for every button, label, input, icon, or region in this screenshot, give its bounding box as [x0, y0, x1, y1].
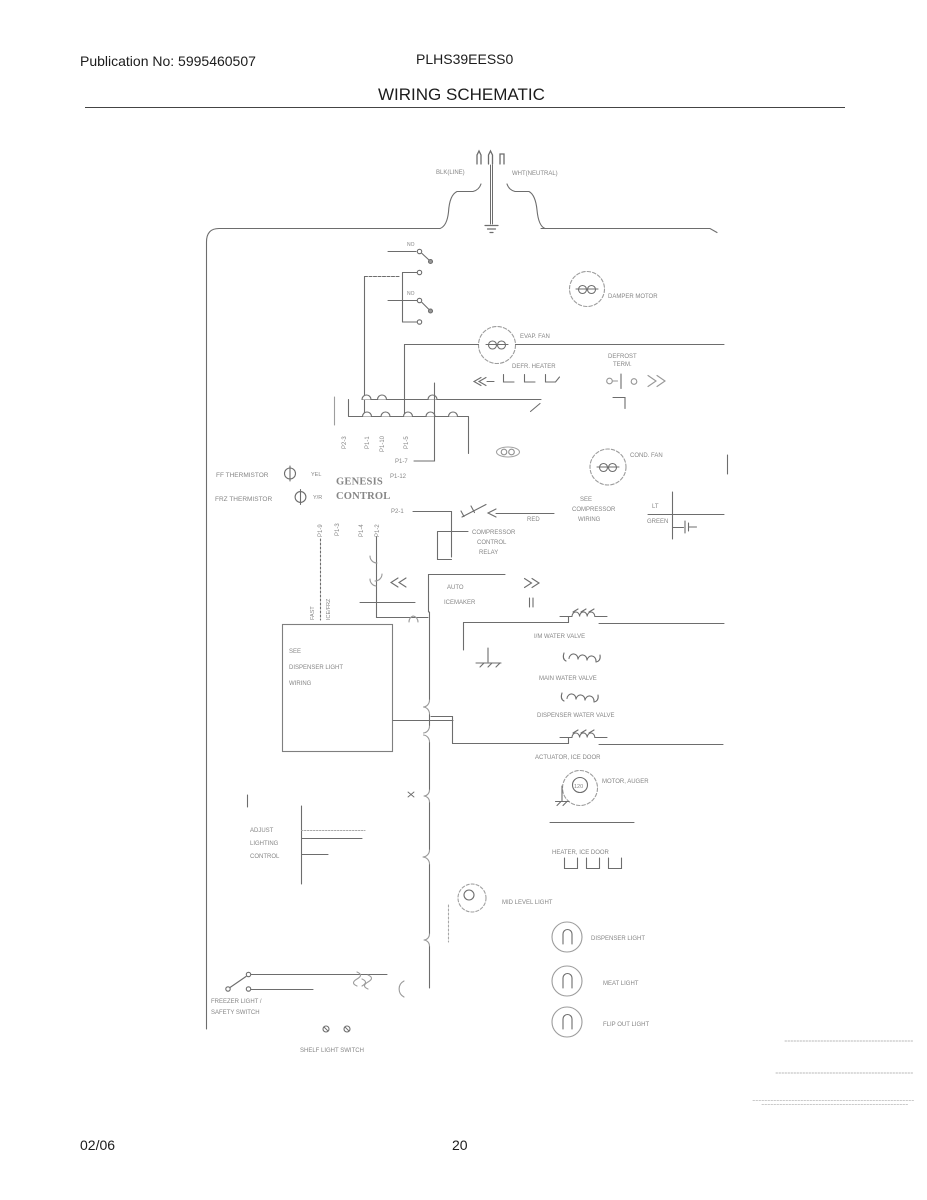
wire: connector row 1: [362, 400, 541, 412]
svg-text:COMPRESSOR: COMPRESSOR: [472, 530, 516, 536]
mid level light: dashed lamp circle: [458, 884, 486, 912]
switch S1 pivot contact: [417, 249, 421, 253]
connector arrows after defrost thermostat: [648, 376, 665, 387]
junction squiggle on distribution wire: [408, 792, 414, 797]
shelf light switch terminal 1: [323, 1026, 329, 1032]
svg-text:Y/R: Y/R: [313, 495, 322, 501]
dashed stub near mid level light: [448, 905, 450, 942]
switch S1 thrown contact: [429, 260, 433, 264]
svg-text:P1-7: P1-7: [395, 459, 408, 465]
svg-text:AUTO: AUTO: [447, 585, 464, 591]
svg-text:120: 120: [574, 784, 583, 790]
condenser fan motor: circle: [590, 449, 626, 485]
wire: P1-7 drop from defrost heater row: [414, 383, 435, 461]
svg-text:MID LEVEL LIGHT: MID LEVEL LIGHT: [502, 900, 553, 906]
capacitor: run capacitor: [673, 521, 697, 533]
wire: auto icemaker box left: [428, 575, 430, 613]
evap fan motor: windings: [486, 344, 508, 346]
svg-text:MAIN WATER VALVE: MAIN WATER VALVE: [539, 676, 597, 682]
connector humps row 2: [363, 412, 458, 417]
connector break arc near freezer switch: [399, 981, 404, 997]
svg-text:WIRING: WIRING: [578, 517, 601, 523]
wire: left bus elbow into switch bracket: [365, 276, 401, 278]
svg-text:P1-3: P1-3: [335, 523, 341, 536]
wire: box to distribution wire: [393, 720, 453, 722]
svg-text:DISPENSER LIGHT: DISPENSER LIGHT: [289, 665, 343, 671]
svg-text:P1-1: P1-1: [365, 436, 371, 449]
svg-text:YEL: YEL: [311, 472, 321, 478]
svg-text:P1-9: P1-9: [318, 524, 324, 537]
switch S2 mid contact: [417, 298, 421, 302]
dispenser light: filament: [563, 930, 572, 945]
switch S2 bracket vertical: [402, 273, 404, 323]
defrost thermostat: left terminal circle: [607, 378, 613, 384]
damper motor: circle: [570, 272, 605, 307]
svg-text:RELAY: RELAY: [479, 550, 498, 556]
switch S2 mid feed wire: [388, 300, 417, 302]
wire: crossbar tick on genesis vertical: [360, 602, 415, 604]
freezer safety switch: upper contact: [246, 972, 250, 976]
connector break arc on horizontal at x 413: [409, 616, 418, 622]
svg-text:TERM.: TERM.: [613, 362, 632, 368]
label GENESIS CONTROL: [336, 477, 391, 503]
motor auger: circle: [563, 771, 598, 806]
svg-text:FAST: FAST: [310, 606, 316, 620]
connector arrows before defrost heater: [474, 378, 494, 386]
svg-text:SAFETY SWITCH: SAFETY SWITCH: [211, 1010, 260, 1016]
connector break arcs on distribution wire: [423, 700, 430, 946]
svg-text:FRZ THERMISTOR: FRZ THERMISTOR: [215, 496, 272, 503]
power plug prong 2: [489, 151, 493, 164]
svg-text:P1-2: P1-2: [375, 524, 381, 537]
evap fan motor: circle: [479, 327, 516, 364]
FF thermistor symbol: [285, 468, 296, 479]
ground: auger motor ground: [556, 786, 570, 806]
wire: lighting control branch upper (dotted): [302, 830, 366, 832]
wire: connector row 2: [349, 400, 469, 454]
flip out light: filament: [563, 1015, 572, 1030]
svg-text:DISPENSER WATER VALVE: DISPENSER WATER VALVE: [537, 713, 614, 719]
svg-text:FF THERMISTOR: FF THERMISTOR: [216, 472, 269, 479]
svg-text:MOTOR, AUGER: MOTOR, AUGER: [602, 779, 649, 785]
svg-text:LT: LT: [652, 504, 659, 510]
ground: power cord earth ground symbol: [485, 226, 498, 233]
interconnect squiggles on freezer light line: [354, 972, 372, 989]
wire: green cap horizontal: [648, 514, 724, 516]
svg-text:NO: NO: [407, 242, 415, 248]
svg-text:SEE: SEE: [289, 649, 301, 655]
wire: actuator to right: [599, 744, 723, 746]
svg-text:MEAT LIGHT: MEAT LIGHT: [603, 981, 639, 987]
power plug prong 3: [500, 154, 504, 164]
svg-text:COND. FAN: COND. FAN: [630, 453, 663, 459]
connector break arcs on icemaker vertical: [370, 556, 382, 586]
svg-text:COMPRESSOR: COMPRESSOR: [572, 507, 616, 513]
meat light: lamp circle: [552, 966, 582, 996]
switch S2 bottom stub: [403, 321, 418, 323]
relay coil bracket left: [438, 532, 469, 560]
compressor relay contact arm: [461, 505, 486, 518]
power plug prong 1: [477, 151, 481, 164]
wire: schematic border top-left with rounded corner and left side: [207, 229, 441, 1030]
connector arrows out of icemaker: [525, 579, 540, 588]
damper motor: windings: [576, 288, 598, 290]
wire: actuator feed line: [453, 738, 569, 744]
svg-text:FREEZER LIGHT /: FREEZER LIGHT /: [211, 999, 262, 1005]
switch S2 thrown contact: [429, 309, 433, 313]
svg-text:CONTROL: CONTROL: [477, 540, 507, 546]
svg-text:EVAP. FAN: EVAP. FAN: [520, 334, 550, 340]
motor auger: inner winding circle: [573, 778, 588, 793]
svg-text:ACTUATOR, ICE DOOR: ACTUATOR, ICE DOOR: [535, 755, 601, 761]
wire: schematic border top-right segment with end hook: [541, 229, 717, 233]
wire: green cap vertical: [672, 492, 674, 539]
wire: vertical drop from evap fan node: [404, 345, 406, 417]
dispenser light: lamp circle: [552, 922, 582, 952]
dashed note line 1 (bottom right): [785, 1040, 914, 1042]
svg-text:DEFR. HEATER: DEFR. HEATER: [512, 364, 556, 370]
dashed note line 3 (bottom right): [753, 1101, 915, 1105]
flip out light: lamp circle: [552, 1007, 582, 1037]
wire: drop to chassis ground: [463, 623, 465, 651]
svg-text:FLIP OUT LIGHT: FLIP OUT LIGHT: [603, 1022, 649, 1028]
switch S1 freezer fan: feed wire: [388, 251, 416, 253]
compressor overload: small double circle: [497, 447, 520, 457]
svg-text:P1-12: P1-12: [390, 474, 407, 480]
switch S2 bottom contact: [417, 320, 421, 324]
wire: icemaker valve feed line: [464, 617, 569, 623]
svg-text:P1-5: P1-5: [404, 436, 410, 449]
wire: auto icemaker box top: [429, 574, 506, 576]
wire: genesis control to icemaker vertical: [377, 537, 429, 618]
dispenser light wiring box: [283, 625, 393, 752]
svg-text:NO: NO: [407, 291, 415, 297]
dashed note line 2 (bottom right): [776, 1072, 913, 1074]
svg-text:ICEMAKER: ICEMAKER: [444, 600, 476, 606]
dispenser water valve coil: [561, 693, 598, 702]
defrost thermostat: stem: [613, 380, 618, 382]
FRZ thermistor symbol: [295, 492, 306, 503]
connector arrows into icemaker: [391, 578, 406, 587]
dashed fast-ice vertical: [320, 539, 322, 620]
switch S2 arm: [422, 303, 429, 310]
wire: defrost elbow: [613, 398, 625, 409]
svg-text:DISPENSER LIGHT: DISPENSER LIGHT: [591, 936, 645, 942]
svg-text:HEATER, ICE DOOR: HEATER, ICE DOOR: [552, 850, 610, 856]
wire: short vertical left of connector rows: [334, 397, 336, 425]
svg-text:WIRING: WIRING: [289, 681, 312, 687]
switch S1 arm: [422, 254, 429, 261]
wire: power entry bump right plateau and S-curve: [507, 184, 545, 229]
wire: adjust lighting control stub: [247, 795, 249, 807]
svg-text:P2-3: P2-3: [342, 436, 348, 449]
meat light: filament: [563, 974, 572, 989]
svg-text:I/M WATER VALVE: I/M WATER VALVE: [534, 634, 585, 640]
ground: chassis ground under valve feed: [476, 648, 501, 667]
svg-text:LIGHTING: LIGHTING: [250, 841, 279, 847]
svg-text:GREEN: GREEN: [647, 519, 668, 525]
wire: power entry bump left S-curve and plateau: [440, 184, 481, 229]
switch S2 top stub: [403, 272, 418, 274]
condenser fan motor: windings: [597, 466, 619, 468]
wire: long vertical distribution wire: [429, 612, 431, 988]
icemaker connector bars: [530, 598, 534, 607]
wire: evap fan to right border: [516, 344, 725, 346]
svg-text:RED: RED: [527, 517, 540, 523]
defrost heater elements: [504, 375, 560, 383]
defrost thermostat: right terminal circle: [631, 379, 637, 385]
wire: P2-1 to compressor relay coil: [413, 512, 452, 558]
wire: freezer switch upper line: [251, 974, 387, 976]
wire: actuator feed elbow: [431, 717, 453, 744]
svg-text:CONTROL: CONTROL: [250, 854, 280, 860]
svg-text:DEFROST: DEFROST: [608, 354, 637, 360]
wire: into evap fan from left: [405, 344, 479, 346]
wire: left vertical bus: [364, 277, 366, 417]
wire: lighting control branch middle: [302, 838, 363, 840]
shelf light switch terminal 2: [344, 1026, 350, 1032]
wire: schematic border right-side short segment: [727, 455, 729, 474]
svg-text:SHELF LIGHT SWITCH: SHELF LIGHT SWITCH: [300, 1048, 364, 1054]
svg-text:GENESIS: GENESIS: [336, 477, 383, 488]
actuator ice door coil: [560, 730, 607, 738]
wire: compressor feed line RED: [496, 513, 554, 515]
wire: freezer switch lower line: [251, 989, 313, 991]
connector arrow on compressor line: [488, 509, 496, 517]
svg-text:WHT(NEUTRAL): WHT(NEUTRAL): [512, 171, 558, 177]
wire: lighting control branch lower: [302, 854, 329, 856]
freezer safety switch: arm: [230, 977, 246, 988]
svg-text:P1-10: P1-10: [380, 435, 386, 452]
svg-text:CONTROL: CONTROL: [336, 491, 391, 502]
connector humps row 1: [362, 395, 437, 400]
svg-text:ICE/FRZ: ICE/FRZ: [326, 598, 332, 620]
I/M water valve coil: [560, 609, 607, 617]
svg-text:P2-1: P2-1: [391, 509, 404, 515]
wire: I/M valve to right: [599, 623, 724, 625]
main water valve coil: [563, 653, 600, 662]
freezer safety switch: lower contact: [246, 987, 250, 991]
mid level light: inner blob: [464, 890, 474, 900]
wire: heater ice door feed: [550, 822, 634, 824]
svg-text:BLK(LINE): BLK(LINE): [436, 170, 465, 176]
wire: lighting control vertical: [301, 806, 303, 884]
svg-text:ADJUST: ADJUST: [250, 828, 274, 834]
defrost thermostat: bimetal bar: [620, 374, 622, 389]
freezer safety switch: common contact: [226, 987, 230, 991]
wire: power cord down to ground: [491, 165, 493, 224]
switch S2 top contact: [417, 270, 421, 274]
svg-text:SEE: SEE: [580, 497, 592, 503]
heater ice door elements: [565, 858, 622, 869]
svg-text:P1-4: P1-4: [359, 524, 365, 537]
svg-text:DAMPER MOTOR: DAMPER MOTOR: [608, 294, 658, 300]
